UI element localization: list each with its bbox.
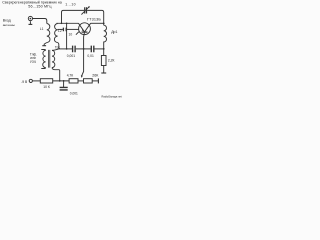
capacitor 0.01 plates bbox=[91, 46, 94, 53]
svg-text:2,2К: 2,2К bbox=[108, 59, 115, 63]
ground chassis tick at 2.2K bbox=[101, 72, 106, 74]
resistor R 2.2K box bbox=[101, 56, 106, 66]
transformer T1 left winding bbox=[43, 50, 46, 67]
wire jack shield stub bbox=[29, 21, 31, 24]
svg-text:0,01: 0,01 bbox=[87, 54, 94, 58]
transformer T1 right winding top lead bbox=[52, 49, 59, 51]
node dot base/rail C bbox=[83, 48, 85, 50]
transformer T1 right winding bbox=[52, 50, 55, 67]
choke Dr1 bbox=[104, 25, 107, 55]
transistor emitter lower lead mark bbox=[76, 32, 79, 35]
node dot transformer/bottom rail bbox=[59, 80, 61, 82]
wire collector rail bbox=[91, 22, 104, 24]
trimmer capacitor C 1...10 plates bbox=[85, 7, 87, 13]
node dot riser2/rail C bbox=[66, 48, 68, 50]
wire cap branch below rail bbox=[63, 81, 65, 87]
transformer T1 core bbox=[48, 50, 49, 68]
transistor emitter diagonal bbox=[79, 23, 85, 32]
wire 26K to ground bbox=[92, 80, 98, 82]
wire rail C mid bbox=[76, 48, 91, 50]
resistor R 10K box bbox=[40, 79, 52, 83]
svg-text:-9 В: -9 В bbox=[21, 80, 28, 84]
transistor collector diagonal bbox=[85, 23, 91, 32]
wire 2.2K bottom bbox=[103, 66, 105, 73]
resistor R 4.7K box bbox=[69, 79, 78, 83]
wire -9V to 10K bbox=[32, 80, 40, 82]
ground chassis tick at L1 bbox=[42, 45, 46, 47]
wire riser tank to rail C bbox=[66, 23, 68, 49]
wire between resistors bbox=[78, 80, 84, 82]
transistor base bar bbox=[82, 31, 88, 33]
svg-text:26К: 26К bbox=[92, 73, 99, 77]
jack center pin bbox=[30, 18, 32, 20]
resistor R 26K box bbox=[84, 79, 93, 83]
capacitor 10 plates bbox=[63, 28, 66, 32]
wire L1 bottom bbox=[44, 43, 47, 46]
ground chassis tick at jack bbox=[29, 23, 33, 25]
node dot choke/rail C bbox=[103, 48, 105, 50]
trimmer arrow bbox=[81, 7, 89, 15]
inductor L2 bbox=[54, 24, 57, 43]
wire bottom rail bbox=[53, 80, 69, 82]
transistor base lead down bbox=[83, 32, 86, 49]
wire riser to top rail bbox=[62, 10, 85, 23]
svg-text:4,7К: 4,7К bbox=[67, 73, 74, 77]
node dot collector/top riser bbox=[103, 23, 105, 25]
svg-text:L2: L2 bbox=[58, 29, 62, 33]
svg-text:1...10: 1...10 bbox=[65, 3, 76, 7]
svg-text:0,001: 0,001 bbox=[70, 91, 78, 95]
svg-text:56...150 МГц: 56...150 МГц bbox=[28, 5, 52, 9]
terminal -9V circle bbox=[29, 79, 32, 82]
svg-text:Др1: Др1 bbox=[111, 30, 117, 34]
antenna jack circle bbox=[28, 16, 32, 20]
svg-text:ГТ313Б: ГТ313Б bbox=[87, 17, 101, 21]
svg-text:Тр1: Тр1 bbox=[55, 46, 61, 50]
wire antenna to L1 bbox=[33, 19, 47, 24]
node dot riser2/rail A bbox=[66, 22, 68, 24]
wire emitter coupling at y29.4 bbox=[58, 28, 63, 30]
transistor Q1 circle bbox=[79, 23, 91, 35]
node dot cap branch/bottom rail bbox=[63, 80, 65, 82]
svg-text:L1: L1 bbox=[40, 27, 44, 31]
wire L2 top to tank rail bbox=[57, 22, 58, 24]
svg-text:Вход: Вход bbox=[3, 18, 11, 22]
wire tank top rail bbox=[57, 22, 79, 24]
wiper arrowhead bbox=[81, 75, 83, 78]
transformer T1 left winding stubs bbox=[41, 50, 45, 69]
wire L2 bottom to transformer bbox=[58, 43, 59, 49]
svg-text:0,001: 0,001 bbox=[67, 54, 75, 58]
wire cap to transistor bbox=[67, 28, 79, 30]
wire potentiometer wiper bbox=[82, 49, 84, 75]
emitter arrowhead bbox=[82, 29, 84, 32]
svg-text:антенны: антенны bbox=[3, 23, 16, 27]
trimmer arrowhead bbox=[88, 6, 90, 8]
wire top rail right to choke bbox=[87, 10, 104, 25]
svg-text:10 К: 10 К bbox=[43, 85, 50, 89]
wire rail C left bbox=[59, 48, 72, 50]
svg-text:УЗЧ: УЗЧ bbox=[30, 60, 36, 64]
capacitor 0.001 lower plates bbox=[60, 87, 68, 90]
wire rail C right bbox=[94, 48, 103, 50]
node dot riser1/rail A bbox=[61, 22, 63, 24]
svg-text:10: 10 bbox=[69, 33, 73, 37]
capacitor 0.001 plates bbox=[73, 46, 76, 53]
inductor L1 bbox=[47, 24, 50, 43]
svg-text:RadioStorage.net: RadioStorage.net bbox=[102, 94, 122, 98]
wire transformer bottom to rail bbox=[52, 68, 60, 81]
ground chassis bar right end bbox=[97, 78, 99, 83]
